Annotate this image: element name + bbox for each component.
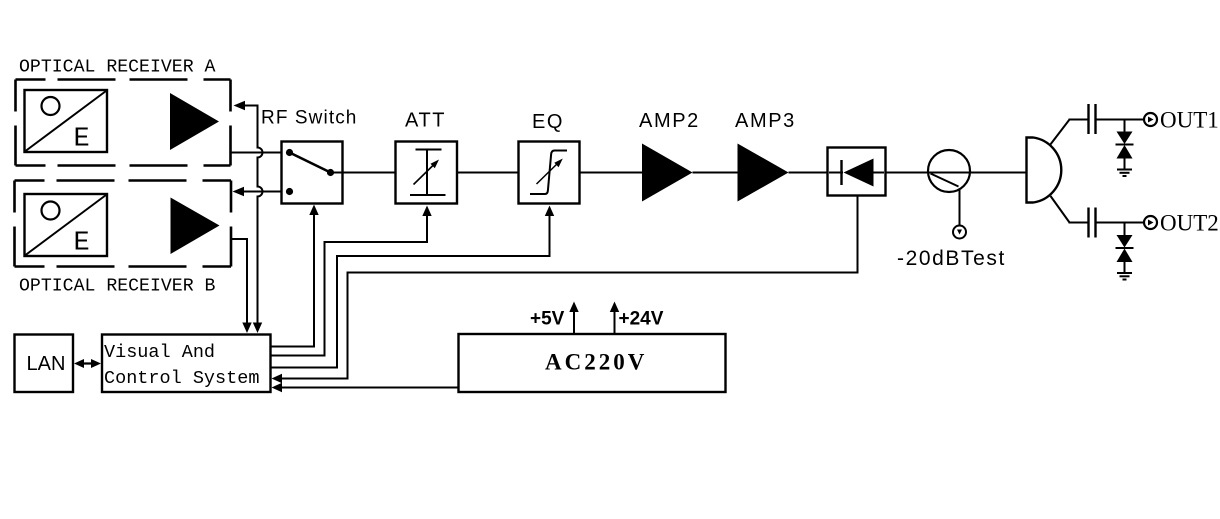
OUT2 connector — [1144, 216, 1157, 229]
amplifier A2 triangle — [171, 198, 220, 255]
RF switch common dot — [327, 169, 334, 176]
O/E U2 circle O — [42, 202, 60, 220]
ATT symbol bottom bar — [410, 194, 446, 196]
svg-text:Control System: Control System — [104, 368, 259, 389]
diode D3 lead right — [874, 172, 885, 174]
splitter top output diagonal — [1050, 120, 1070, 146]
O/E converter U2 box — [25, 194, 108, 256]
wire receiver B output to control system — [231, 239, 247, 327]
wire detector to splitter through coupler — [886, 172, 1027, 174]
svg-text:+5V: +5V — [530, 309, 565, 330]
coupler tap down wire — [959, 190, 961, 226]
wire RF switch to receiver B — [243, 191, 282, 193]
splitter arc — [1034, 138, 1062, 203]
ATT box — [396, 142, 458, 204]
+24V supply arrow — [614, 307, 616, 334]
svg-text:LAN: LAN — [27, 353, 66, 375]
svg-text:ATT: ATT — [405, 110, 446, 132]
RF switch pole dot top — [286, 149, 293, 156]
amplifier AMP2 — [642, 144, 693, 202]
O/E U1 diagonal — [26, 91, 107, 151]
wire AMP2 to AMP3 — [693, 172, 738, 174]
amplifier AMP3 — [738, 144, 789, 202]
svg-text:RF Switch: RF Switch — [261, 108, 357, 129]
svg-text:Visual And: Visual And — [104, 342, 215, 363]
svg-text:-20dBTest: -20dBTest — [897, 247, 1006, 270]
splitter bottom output diagonal — [1051, 196, 1070, 223]
wire AMP3 to detector box — [789, 172, 828, 174]
svg-text:AMP3: AMP3 — [735, 110, 796, 132]
AC220V box — [459, 334, 726, 392]
O/E converter U1 box — [25, 90, 108, 152]
arrowhead into control system from detector — [272, 374, 283, 383]
EQ symbol arrow — [537, 162, 560, 185]
optical receiver B dashed box — [15, 181, 232, 267]
detector diode box — [828, 148, 886, 196]
svg-text:OUT1: OUT1 — [1160, 108, 1219, 133]
arrowhead into control system from receiver A line — [253, 323, 262, 334]
RF switch pole dot bottom — [286, 188, 293, 195]
EQ box — [519, 142, 580, 204]
ATT symbol vertical — [426, 150, 428, 196]
+5V supply arrow — [573, 307, 575, 334]
test port inner mark — [957, 230, 962, 235]
svg-text:E: E — [74, 229, 90, 259]
wire ATT to EQ — [457, 172, 519, 174]
diode D3 triangle — [844, 159, 874, 187]
ground G1 — [1117, 169, 1132, 171]
arrowhead into receiver B — [233, 187, 245, 196]
wire RF switch to ATT — [332, 172, 396, 174]
EQ curve symbol — [530, 151, 567, 195]
O/E U1 circle O — [42, 97, 60, 115]
capacitor C2 — [1087, 208, 1089, 238]
LAN box — [15, 335, 74, 393]
wire EQ to AMP2 — [580, 172, 643, 174]
wire to capacitor C1 — [1069, 119, 1089, 121]
control wire to ATT — [271, 212, 428, 356]
svg-text:AC220V: AC220V — [545, 350, 647, 375]
coupler circle — [928, 150, 970, 192]
TVS diode pair D1 — [1124, 120, 1126, 133]
diode D3 cathode bar — [840, 160, 842, 185]
control system box — [102, 335, 271, 393]
wire to capacitor C2 — [1069, 222, 1089, 224]
ground G2 — [1117, 272, 1132, 274]
arrowhead into control system from receiver B line — [242, 323, 251, 334]
wire C1 to OUT1 — [1096, 119, 1145, 121]
TVS diode pair D2 — [1124, 223, 1126, 236]
OUT1 connector — [1144, 113, 1157, 126]
svg-text:E: E — [74, 125, 90, 155]
optical receiver A dashed box — [16, 80, 231, 166]
svg-text:+24V: +24V — [619, 309, 664, 330]
ATT symbol top bar — [416, 149, 442, 151]
O/E U2 diagonal — [26, 195, 107, 255]
wire receiver A output to RF switch — [231, 152, 282, 154]
svg-text:OPTICAL RECEIVER A: OPTICAL RECEIVER A — [19, 58, 216, 78]
amplifier A1 triangle — [170, 93, 219, 150]
coupler tap chord — [931, 174, 959, 187]
LAN to control system bidirectional arrow — [78, 362, 97, 364]
RF switch box — [282, 142, 343, 204]
svg-text:OUT2: OUT2 — [1160, 211, 1219, 236]
control wire to receiver A with hops — [244, 106, 263, 328]
RF switch lever — [290, 153, 331, 173]
wire detector monitor to control system — [277, 196, 858, 379]
svg-text:AMP2: AMP2 — [639, 110, 700, 132]
power wire AC220V to control system — [277, 387, 459, 389]
arrowhead into receiver A — [234, 101, 246, 110]
control wire to EQ — [271, 212, 550, 368]
splitter body — [1027, 138, 1034, 203]
test port circle — [953, 226, 966, 239]
ATT symbol arrow — [414, 163, 437, 185]
wire C2 to OUT2 — [1096, 222, 1145, 224]
control wire to RF switch — [271, 211, 315, 347]
svg-text:EQ: EQ — [532, 111, 564, 133]
diode D3 lead left — [829, 172, 843, 174]
svg-text:OPTICAL RECEIVER B: OPTICAL RECEIVER B — [19, 277, 216, 297]
capacitor C1 — [1087, 104, 1089, 134]
